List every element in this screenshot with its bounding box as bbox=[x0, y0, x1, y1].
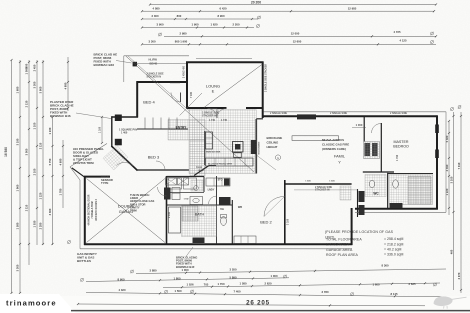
leader line gas fire bbox=[255, 154, 276, 170]
bed4 door arc bbox=[180, 93, 182, 103]
kitchen right top join wall bbox=[256, 118, 263, 120]
svg-text:TYPE: TYPE bbox=[101, 181, 108, 185]
master right wall window jambs bbox=[435, 125, 439, 134]
svg-text:1 KD: 1 KD bbox=[184, 199, 189, 201]
svg-text:4 125: 4 125 bbox=[400, 39, 407, 43]
wall ensuite top bbox=[388, 173, 433, 175]
eave line house bottom bbox=[80, 248, 352, 250]
bed4 robe rail bbox=[170, 82, 180, 84]
svg-text:HEIGHT: HEIGHT bbox=[267, 145, 278, 149]
garage internal door arc bbox=[158, 187, 167, 196]
svg-text:1 620: 1 620 bbox=[211, 23, 218, 27]
wall hall/family mid bbox=[285, 183, 352, 185]
wall bed3 bay top bbox=[112, 116, 138, 118]
wall garage right bbox=[166, 176, 168, 245]
ensuite shower dense tiles bbox=[408, 177, 431, 205]
toilet room wall bbox=[216, 176, 218, 205]
dimension line row F 3300/800 1900/12600/4125 bbox=[142, 43, 436, 45]
svg-text:7 180: 7 180 bbox=[190, 91, 193, 98]
svg-text:2 450: 2 450 bbox=[33, 64, 37, 71]
bath tub bbox=[169, 207, 181, 233]
kiwi logo legs bbox=[443, 306, 445, 309]
svg-text:LIVING AREA: LIVING AREA bbox=[326, 243, 349, 247]
dimension line row C 2300/800/8900 bbox=[142, 18, 258, 20]
svg-text:7 010: 7 010 bbox=[457, 162, 461, 169]
dimension line 20 200 (top row A) bbox=[150, 4, 436, 6]
svg-text:STO: STO bbox=[218, 179, 223, 182]
svg-text:3 900: 3 900 bbox=[157, 23, 164, 27]
svg-text:800 1 900: 800 1 900 bbox=[175, 39, 188, 43]
left dimension line 7 (inner) bbox=[62, 140, 64, 208]
left dimension line 2 bbox=[19, 60, 21, 293]
bottom dimension row B 8900/1800/5890/1000 bbox=[81, 278, 84, 281]
wc floor tiles bbox=[365, 175, 386, 197]
svg-text:(PLEASE PROVIDE LOCATION OF GA: (PLEASE PROVIDE LOCATION OF GAS bbox=[325, 230, 394, 234]
bed4 robe band dividers bbox=[144, 118, 146, 130]
wall right-wing right bbox=[436, 115, 438, 209]
dimension line row B 4080/6420/12985 bbox=[142, 10, 434, 12]
svg-text:5 890: 5 890 bbox=[230, 276, 237, 280]
svg-text:WC: WC bbox=[373, 192, 379, 196]
svg-text:4 320: 4 320 bbox=[119, 288, 126, 292]
svg-text:3 360: 3 360 bbox=[48, 208, 52, 215]
master door arc bbox=[372, 124, 382, 134]
svg-text:1 790: 1 790 bbox=[396, 154, 399, 161]
svg-text:3 100: 3 100 bbox=[287, 218, 290, 225]
laundry tub dark bbox=[224, 179, 230, 186]
svg-text:1 800: 1 800 bbox=[174, 277, 181, 281]
kitchen floor tiles bbox=[189, 110, 256, 174]
svg-text:2 SINGLE SIDE: 2 SINGLE SIDE bbox=[390, 112, 408, 115]
svg-text:2450/766 TRIM: 2450/766 TRIM bbox=[73, 161, 94, 165]
linen cupboard blobs bbox=[359, 191, 365, 202]
bottom heavy rule bbox=[71, 310, 470, 312]
right dimension line 3 bbox=[460, 112, 462, 293]
svg-text:7 400: 7 400 bbox=[234, 289, 241, 293]
svg-text:= 258.4 sqM: = 258.4 sqM bbox=[384, 237, 403, 241]
svg-text:GARAGE AREA: GARAGE AREA bbox=[326, 248, 353, 252]
svg-text:BED 3: BED 3 bbox=[148, 154, 160, 159]
svg-text:MICROWAVE: MICROWAVE bbox=[258, 141, 261, 155]
svg-text:1 580: 1 580 bbox=[240, 282, 247, 286]
svg-text:MASTER: MASTER bbox=[394, 140, 409, 144]
svg-text:CLASSIC GAS FIRE: CLASSIC GAS FIRE bbox=[322, 142, 349, 146]
svg-text:4 080: 4 080 bbox=[153, 6, 160, 10]
svg-text:4800/2200 DOORS 2: 4800/2200 DOORS 2 bbox=[95, 198, 98, 221]
hot water cupboard rects bbox=[169, 178, 182, 189]
svg-text:800: 800 bbox=[177, 14, 182, 18]
svg-text:1 700: 1 700 bbox=[218, 282, 225, 286]
wall entry angled bbox=[111, 146, 137, 171]
svg-text:1 960: 1 960 bbox=[16, 184, 20, 191]
svg-text:G: G bbox=[277, 156, 279, 160]
bottom dimension row C 1026/705/1700/1580/2620 + 1600/2635 bbox=[163, 283, 440, 288]
svg-text:1 780: 1 780 bbox=[59, 188, 63, 195]
entry void cross diagonal bbox=[180, 93, 202, 116]
wall garage top bbox=[84, 176, 110, 178]
svg-text:WDW 600 SNK: WDW 600 SNK bbox=[206, 152, 221, 154]
svg-text:BED 4: BED 4 bbox=[143, 100, 155, 105]
laundry wall vertical bbox=[203, 177, 205, 193]
leader arrow to deck post bbox=[116, 61, 132, 64]
svg-text:3 100: 3 100 bbox=[449, 176, 453, 183]
eave line garage left bbox=[79, 180, 81, 249]
svg-text:LNDY: LNDY bbox=[208, 189, 215, 192]
svg-text:6 420: 6 420 bbox=[220, 6, 227, 10]
porch paving hatch bbox=[103, 145, 128, 170]
entry door leaf bbox=[124, 158, 133, 167]
svg-text:2 110: 2 110 bbox=[39, 142, 43, 149]
left dimension line 3 bbox=[28, 60, 30, 265]
svg-text:2 SINGLE SIDE: 2 SINGLE SIDE bbox=[270, 112, 288, 115]
svg-text:2 970: 2 970 bbox=[457, 272, 461, 279]
bay window posts bbox=[115, 115, 122, 122]
svg-text:1 220: 1 220 bbox=[39, 192, 43, 199]
wall kitchen right bbox=[255, 119, 257, 174]
vanity room rect bbox=[190, 197, 203, 205]
svg-text:Cook: Cook bbox=[196, 167, 202, 169]
svg-text:2 980: 2 980 bbox=[180, 31, 187, 35]
kitchen fridge column bbox=[206, 132, 213, 149]
svg-text:HL/RW: HL/RW bbox=[149, 58, 158, 62]
wall bed3 bay left bbox=[111, 116, 113, 146]
svg-text:1 680: 1 680 bbox=[16, 86, 20, 93]
svg-text:ENTRY: ENTRY bbox=[176, 125, 188, 129]
garage cross diagonal 2 bbox=[87, 179, 166, 243]
lounge top eave bbox=[196, 58, 252, 60]
svg-text:TOTAL FLOOR AREA: TOTAL FLOOR AREA bbox=[326, 238, 362, 242]
smoke alarm circle hall bbox=[194, 186, 199, 191]
svg-text:1 100: 1 100 bbox=[33, 122, 37, 129]
porch edge diagonal bbox=[70, 144, 107, 167]
bed2 wardrobe bbox=[234, 236, 256, 244]
parallel twin of diagonal D1 bbox=[128, 56, 191, 112]
svg-text:ALLGOOD PACK 2 DRW: ALLGOOD PACK 2 DRW bbox=[208, 163, 232, 166]
inner dimension line left of bed4 bbox=[67, 57, 69, 111]
wall master-ensuite bottom bbox=[355, 208, 438, 210]
wall bath block top bbox=[167, 204, 233, 206]
porch edge lower bbox=[70, 167, 80, 180]
eave line right wing right bbox=[445, 112, 447, 213]
wall bed4/bed3 left bbox=[136, 81, 138, 117]
laundry tub hatch bbox=[340, 186, 351, 200]
svg-text:FAMIL: FAMIL bbox=[334, 155, 345, 159]
kitchen oven block bbox=[233, 142, 244, 153]
wall step master-to-family bbox=[351, 208, 353, 245]
svg-text:HWC: HWC bbox=[168, 181, 174, 183]
right dimension line 2 bbox=[453, 112, 455, 290]
svg-text:8 145: 8 145 bbox=[391, 292, 398, 296]
svg-text:2 450/2 450: 2 450/2 450 bbox=[183, 65, 186, 78]
svg-text:2 635: 2 635 bbox=[409, 282, 416, 286]
svg-text:BOWMAC B4F: BOWMAC B4F bbox=[176, 265, 195, 269]
svg-text:12 985: 12 985 bbox=[348, 7, 357, 11]
linen cupboard crossed box 1 bbox=[166, 178, 177, 186]
svg-text:1 745: 1 745 bbox=[221, 119, 228, 122]
svg-text:trinamoore: trinamoore bbox=[6, 299, 57, 308]
wall master nib bbox=[363, 117, 365, 142]
wall hall linen bbox=[357, 189, 359, 217]
eave line master bottom bbox=[355, 211, 446, 213]
family fireplace bbox=[297, 114, 316, 119]
svg-text:BOTTLES: BOTTLES bbox=[77, 259, 91, 263]
svg-text:16 580: 16 580 bbox=[4, 147, 8, 157]
svg-text:1 100: 1 100 bbox=[99, 126, 102, 133]
wall lounge left bbox=[186, 62, 188, 109]
svg-text:1 580: 1 580 bbox=[16, 222, 20, 229]
svg-text:5 380: 5 380 bbox=[445, 135, 449, 142]
svg-text:BOWMAC B46: BOWMAC B46 bbox=[94, 63, 115, 67]
svg-text:2 200: 2 200 bbox=[233, 23, 240, 27]
svg-text:VA: VA bbox=[220, 207, 224, 211]
svg-text:= 40.2 sqM: = 40.2 sqM bbox=[384, 248, 401, 252]
entry floor tiles bbox=[168, 120, 205, 141]
svg-text:= 218.2 sqM: = 218.2 sqM bbox=[384, 242, 403, 246]
right dimension line 1 bbox=[448, 121, 450, 215]
svg-text:1 000: 1 000 bbox=[356, 123, 363, 127]
svg-text:DOUBLE: DOUBLE bbox=[118, 204, 135, 209]
svg-text:1 030: 1 030 bbox=[33, 220, 37, 227]
svg-text:= 336.0 sqM: = 336.0 sqM bbox=[384, 253, 403, 257]
left dimension line 16 580 (outermost) bbox=[11, 60, 13, 293]
bath dense fixture block bbox=[219, 197, 231, 205]
svg-text:1 400: 1 400 bbox=[121, 132, 128, 135]
wall bed4 top bbox=[137, 81, 189, 83]
left dimension line 5 bbox=[42, 60, 44, 245]
svg-text:2 110: 2 110 bbox=[25, 204, 29, 211]
svg-text:2 130: 2 130 bbox=[25, 100, 29, 107]
leader arrow glazing note bbox=[186, 247, 193, 257]
bath wc pan bbox=[221, 217, 227, 226]
ensuite floor tiles bbox=[390, 175, 433, 205]
svg-text:CEILING: CEILING bbox=[267, 141, 279, 145]
svg-text:Y: Y bbox=[338, 161, 341, 165]
svg-text:1 600: 1 600 bbox=[373, 282, 380, 286]
svg-text:2 SINGLE SIDE: 2 SINGLE SIDE bbox=[330, 112, 348, 115]
svg-text:1 740: 1 740 bbox=[209, 119, 216, 122]
kitchen bench band bbox=[206, 158, 254, 166]
svg-text:2 300: 2 300 bbox=[152, 14, 159, 18]
svg-text:4/6 HIGH SECTIONAL DOOR: 4/6 HIGH SECTIONAL DOOR bbox=[88, 194, 91, 225]
svg-text:2 100: 2 100 bbox=[33, 168, 37, 175]
svg-text:12 600: 12 600 bbox=[293, 39, 302, 43]
svg-text:STACKER IN: STACKER IN bbox=[315, 189, 330, 192]
kitchen island bench bbox=[292, 136, 339, 141]
svg-text:3 900: 3 900 bbox=[39, 86, 43, 93]
svg-text:BRICKLINE: BRICKLINE bbox=[267, 136, 283, 140]
deck post brick pier bbox=[133, 62, 137, 67]
svg-text:2 280: 2 280 bbox=[39, 222, 43, 229]
svg-text:3 880: 3 880 bbox=[150, 268, 157, 272]
svg-text:STACKER IN: STACKER IN bbox=[147, 75, 162, 78]
svg-text:2 620: 2 620 bbox=[265, 281, 272, 285]
wall lounge bottom bbox=[186, 107, 226, 109]
svg-text:WR: WR bbox=[238, 205, 242, 209]
svg-text:20 200: 20 200 bbox=[251, 0, 261, 4]
kitchen oven lower bbox=[234, 153, 242, 158]
svg-text:1 600: 1 600 bbox=[329, 181, 335, 183]
kitchen-hall wall bbox=[204, 131, 206, 165]
svg-text:1 900: 1 900 bbox=[192, 23, 199, 27]
svg-text:BED 2: BED 2 bbox=[260, 219, 272, 224]
lounge bottom wall right segment bbox=[246, 107, 263, 109]
svg-text:8 900: 8 900 bbox=[118, 277, 125, 281]
svg-text:2 100: 2 100 bbox=[168, 211, 171, 218]
wall bed3 bottom bbox=[137, 169, 189, 171]
svg-text:1 600: 1 600 bbox=[305, 181, 311, 183]
svg-text:4 390: 4 390 bbox=[445, 164, 449, 171]
deck lower line bbox=[136, 63, 187, 65]
svg-text:1 026: 1 026 bbox=[187, 283, 194, 287]
svg-text:BD/4B: BD/4B bbox=[150, 62, 158, 66]
wall bath right bbox=[216, 205, 218, 244]
watermark banner white strip bbox=[0, 294, 76, 313]
svg-text:E: E bbox=[212, 89, 215, 94]
wall right-wing top bbox=[262, 115, 438, 117]
wc pan small bbox=[369, 180, 374, 188]
bed3 door arc bbox=[156, 161, 165, 170]
svg-text:8 900: 8 900 bbox=[218, 14, 225, 18]
deck outline top-left vertical bbox=[123, 56, 125, 82]
wall wc top bbox=[363, 171, 394, 173]
svg-text:4 890: 4 890 bbox=[64, 82, 68, 89]
svg-text:BOWMAC B46: BOWMAC B46 bbox=[50, 114, 71, 118]
svg-text:(OWNERS CARE): (OWNERS CARE) bbox=[322, 147, 346, 151]
bed2 door arc bbox=[264, 196, 285, 216]
dimension line row D 3900/1900/1620/2200 bbox=[142, 27, 254, 29]
svg-text:5 750: 5 750 bbox=[48, 158, 52, 165]
svg-text:BATH: BATH bbox=[195, 213, 205, 217]
wall lounge right bbox=[262, 62, 264, 119]
eave line right wing top bbox=[264, 111, 447, 113]
long diagonal leader D1 through bed4/kitchen bbox=[126, 56, 254, 172]
wall lounge top bbox=[186, 61, 264, 63]
svg-text:GARAG: GARAG bbox=[119, 209, 133, 214]
walk-in-pantry diagonal wall bbox=[194, 166, 209, 176]
bath wall mid bbox=[167, 192, 205, 194]
svg-text:8 360: 8 360 bbox=[382, 263, 389, 267]
svg-text:3 300: 3 300 bbox=[33, 81, 37, 88]
svg-text:BEDROO: BEDROO bbox=[393, 144, 409, 148]
deck outline top-left horizontal bbox=[124, 55, 189, 57]
svg-text:1 000: 1 000 bbox=[271, 274, 278, 278]
bath block lower cupboards 1 bbox=[164, 188, 171, 200]
bath block lower cupboards 2 bbox=[172, 188, 180, 200]
bottom dimension row A 3880/1000/3550/8360 bbox=[131, 270, 134, 273]
smoke alarm circle family bbox=[275, 155, 280, 160]
svg-text:1 500: 1 500 bbox=[175, 289, 182, 293]
bottom dimension row D 4320/1500/7400/3780/8145 bbox=[86, 293, 446, 297]
wall master robe divider bbox=[380, 123, 382, 172]
long diagonal leader D2 through lounge bbox=[204, 64, 262, 107]
master robe shelving tiles bbox=[364, 142, 380, 159]
svg-text:3 300: 3 300 bbox=[16, 264, 20, 271]
svg-text:800: 800 bbox=[25, 63, 29, 68]
left dimension line 4 bbox=[36, 60, 38, 245]
svg-text:7 PANELS TRIM: 7 PANELS TRIM bbox=[91, 201, 94, 218]
kiwi logo body bbox=[434, 296, 453, 306]
svg-text:3 190: 3 190 bbox=[16, 138, 20, 145]
svg-text:1 230: 1 230 bbox=[48, 127, 52, 134]
laundry bench bbox=[206, 178, 230, 186]
left dimension line 6 bbox=[52, 117, 54, 245]
hall floor tiles bbox=[190, 140, 205, 176]
kitchen right cupboards bbox=[251, 140, 256, 154]
wall house bottom bbox=[84, 243, 352, 245]
leader arrow plaster note bbox=[76, 113, 111, 119]
kiwi logo beak bbox=[451, 297, 467, 299]
walk-in-pantry side wall bbox=[209, 165, 216, 167]
wall bed2 right bbox=[284, 180, 286, 245]
wall ensuite left bbox=[387, 173, 389, 209]
bottom total dimension 26 205 bbox=[78, 304, 425, 306]
wall bed3/bed4 robe band bottom bbox=[137, 128, 188, 130]
toilet room door arc bbox=[209, 196, 217, 204]
svg-text:MHAIA JURRUS: MHAIA JURRUS bbox=[322, 138, 344, 142]
lounge double door arcs bbox=[208, 109, 218, 119]
linen cupboard crossed box 2 bbox=[178, 178, 189, 186]
ensuite vanity bbox=[390, 203, 403, 208]
svg-text:12 000: 12 000 bbox=[291, 31, 300, 35]
garage cross diagonal 1 bbox=[87, 179, 166, 243]
bath vanity bbox=[193, 238, 205, 244]
family south window sill line bbox=[294, 189, 358, 191]
svg-text:4 725: 4 725 bbox=[394, 30, 401, 34]
circle mark garage corner bbox=[68, 241, 71, 244]
svg-text:3 300: 3 300 bbox=[149, 39, 156, 43]
bath block top wall bbox=[167, 176, 205, 178]
svg-text:3 000: 3 000 bbox=[25, 148, 29, 155]
wall bed2 left bbox=[231, 200, 233, 244]
svg-text:STACKER IN: STACKER IN bbox=[202, 114, 217, 117]
wall garage chamfer corner bbox=[72, 168, 84, 177]
bath shower dense hatch bbox=[182, 206, 198, 221]
laundry floor hatch bbox=[191, 180, 203, 191]
svg-text:2 SINGLE SIDE STACKER: 2 SINGLE SIDE STACKER bbox=[264, 64, 267, 92]
svg-text:26 205: 26 205 bbox=[246, 300, 270, 307]
svg-text:ROOF PLAN AREA: ROOF PLAN AREA bbox=[326, 253, 359, 257]
svg-text:460: 460 bbox=[449, 249, 453, 254]
svg-text:1 220: 1 220 bbox=[445, 188, 449, 195]
wall garage left bbox=[84, 176, 86, 245]
svg-text:3 550: 3 550 bbox=[230, 268, 237, 272]
svg-text:3 780: 3 780 bbox=[322, 290, 329, 294]
master robe shelf blobs bbox=[365, 143, 371, 156]
svg-text:4 690: 4 690 bbox=[59, 158, 63, 165]
dimension line row E 2980/12000/4725 bbox=[159, 33, 162, 36]
rotated label 1100 porch dim bbox=[101, 117, 103, 143]
ensuite wc pan bbox=[393, 180, 399, 188]
svg-text:705: 705 bbox=[204, 282, 209, 286]
bath floor tiles bbox=[182, 206, 217, 237]
